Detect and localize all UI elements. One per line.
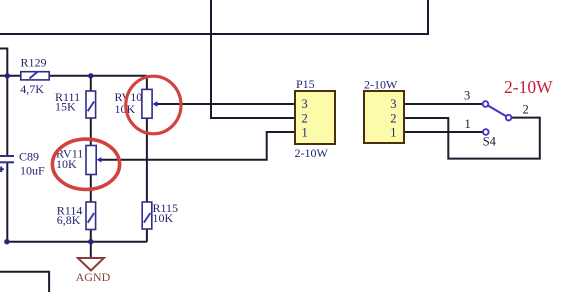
wire bottom horizontal <box>7 241 147 243</box>
svg-text:3: 3 <box>302 97 308 111</box>
svg-text:10uF: 10uF <box>20 164 45 178</box>
wire vertical bus to P15 pin2 <box>211 0 295 118</box>
svg-text:6,8K: 6,8K <box>57 213 81 227</box>
wire left stub into node A <box>0 49 7 76</box>
label R111 <box>55 90 80 114</box>
wire AGND stub <box>90 242 92 258</box>
svg-text:R129: R129 <box>21 56 47 70</box>
potentiometer RV11 <box>86 146 96 175</box>
capacitor C89 <box>0 156 14 172</box>
wire RV11 wiper to P15 pin1 <box>101 132 295 160</box>
wire conn2 pin1 to switch <box>404 131 483 133</box>
wire RV10 wiper to P15 pin3 <box>157 103 296 105</box>
label C89 <box>19 150 45 178</box>
svg-text:2: 2 <box>523 103 529 117</box>
svg-text:1: 1 <box>302 125 308 139</box>
svg-text:P15: P15 <box>296 77 315 91</box>
connector U2 2-10W <box>364 78 404 144</box>
contact 1 <box>483 129 489 135</box>
potentiometer RV10 <box>142 89 152 118</box>
svg-text:3: 3 <box>390 97 396 111</box>
wire conn2 pin3 to switch <box>404 103 483 105</box>
junction node B <box>88 73 93 78</box>
junction node C <box>88 239 93 244</box>
svg-text:2: 2 <box>390 111 396 125</box>
svg-text:3: 3 <box>464 88 470 102</box>
wiper arrow RV10 <box>152 101 157 106</box>
svg-text:4,7K: 4,7K <box>20 82 44 96</box>
wire below C89 <box>6 162 8 241</box>
junction node D <box>4 239 9 244</box>
svg-text:10K: 10K <box>56 157 77 171</box>
resistor R129 <box>21 72 49 80</box>
contact 2 <box>506 115 512 121</box>
switch S4 <box>464 88 529 148</box>
svg-text:AGND: AGND <box>76 270 111 284</box>
red highlight circle around RV10 <box>126 76 181 134</box>
label R129 <box>20 56 46 97</box>
resistor R114 <box>86 202 96 230</box>
wire left vertical through C89 <box>6 76 8 155</box>
resistor R115 <box>142 202 152 229</box>
svg-text:2-10W: 2-10W <box>295 146 329 160</box>
svg-text:C89: C89 <box>19 150 39 164</box>
red highlight ellipse around RV11 <box>52 139 119 189</box>
ground AGND <box>76 258 111 284</box>
wire bottom-left box outline <box>0 272 49 292</box>
wire conn2 pin2 loop to switch common <box>404 118 540 159</box>
label R115 <box>153 201 179 225</box>
contact 3 <box>483 101 489 107</box>
label RV10 <box>115 90 143 116</box>
svg-text:2-10W: 2-10W <box>364 78 398 92</box>
wire R111 RV11 R114 vertical chain <box>90 76 92 242</box>
junction node A <box>5 73 10 78</box>
svg-text:15K: 15K <box>55 100 76 114</box>
resistor R111 <box>86 91 96 118</box>
connector P15 <box>295 77 336 160</box>
wiper arrow RV11 <box>97 157 102 162</box>
svg-text:2: 2 <box>302 111 308 125</box>
wire RV10 R115 vertical chain <box>146 76 148 242</box>
svg-text:2-10W: 2-10W <box>504 77 553 97</box>
svg-text:10K: 10K <box>153 211 174 225</box>
label RV11 <box>56 147 83 172</box>
svg-text:1: 1 <box>390 125 396 139</box>
svg-text:S4: S4 <box>483 134 497 148</box>
svg-text:1: 1 <box>465 117 471 131</box>
wire top bus <box>0 0 428 34</box>
wire horizontal through R129 <box>0 75 147 77</box>
blade <box>488 105 507 116</box>
label R114 <box>57 204 83 228</box>
